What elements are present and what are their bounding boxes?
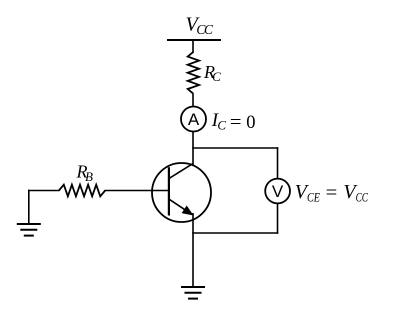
wire RC to ammeter [192,94,194,107]
label VCE = VCC [295,181,369,204]
svg-text:C: C [217,118,226,133]
ground (left) [17,224,41,236]
power supply bar VCC [167,39,221,41]
wire VCC bar to RC [192,40,194,53]
svg-text:=: = [326,182,338,203]
wire collector junction to voltmeter top (horizontal) [192,147,278,149]
transistor Q1 emitter line [169,199,191,213]
transistor Q1 circle [152,163,211,222]
transistor Q1 emitter arrowhead [182,206,193,215]
resistor RC [188,52,199,94]
wire left vertical down to ground [28,190,30,224]
svg-text:0: 0 [246,113,255,133]
voltmeter V1 circle [265,179,290,204]
label IC = 0 [211,110,256,133]
wire down to voltmeter [277,147,279,179]
wire RB to base bar [105,190,169,192]
svg-text:=: = [230,112,242,133]
wire emitter down to ground [192,213,194,287]
transistor Q1 base bar [168,167,170,215]
resistor RB [59,185,105,197]
ground (bottom) [181,287,205,299]
wire voltmeter bottom down [277,203,279,233]
wire base (left segment from left corner to RB) [28,190,60,192]
wire bottom horizontal back to emitter junction [192,232,278,234]
transistor Q1 collector line [169,163,193,178]
ammeter A1 circle [181,107,206,132]
svg-text:V: V [272,182,284,201]
wire ammeter to collector [192,132,194,166]
svg-text:A: A [188,110,200,129]
